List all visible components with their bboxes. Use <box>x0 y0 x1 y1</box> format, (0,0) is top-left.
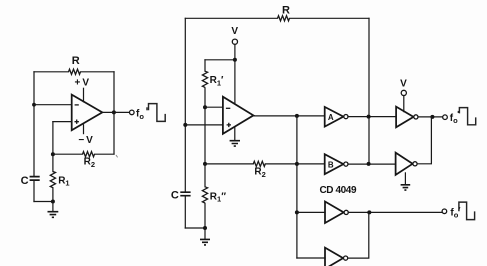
resistor R2 (right circuit) <box>253 161 265 166</box>
resistor R (right circuit) <box>278 16 290 21</box>
node: R1" bottom junction <box>203 226 207 230</box>
terminal V (supply right) <box>401 90 406 95</box>
pin + (U1) <box>75 120 79 124</box>
wire: feedback right vertical <box>368 18 370 164</box>
wire: non-inverting input <box>53 121 72 123</box>
node: inverting input junction <box>32 103 36 107</box>
resistor R (left circuit) <box>69 69 81 74</box>
node: paralleled outputs junction <box>430 115 434 119</box>
wire: mid distribution vertical <box>296 116 298 258</box>
waveform icon (fo') <box>459 202 475 220</box>
wire: U4 output up to fo line <box>417 117 431 164</box>
node: paralleled outputs junction (bottom) <box>367 210 371 214</box>
wire: top feedback left segment <box>185 17 277 19</box>
inverter U3 (top buffer) <box>396 107 413 128</box>
wire: top feedback left segment <box>34 71 69 73</box>
inverter A <box>325 107 344 127</box>
node: + input junction on left rail <box>183 123 187 127</box>
svg-text:fo: fo <box>136 109 144 121</box>
svg-text:B: B <box>328 160 334 169</box>
ground (left circuit) <box>52 202 54 212</box>
svg-text:R1: R1 <box>58 175 69 187</box>
node: feedback tap on A line <box>367 115 371 119</box>
wire: D inverter input <box>297 257 325 259</box>
svg-text:R: R <box>72 55 80 67</box>
op-amp U1 <box>72 95 103 131</box>
wire: R2 left segment <box>205 163 253 165</box>
wire: inverting input <box>34 104 72 106</box>
wire: to R1' top <box>205 59 235 61</box>
pin - (U2) <box>226 107 230 109</box>
inverter U5 (bottom pair top) <box>325 202 344 224</box>
node: bottom junction <box>51 200 55 204</box>
wire: B output <box>348 163 396 165</box>
resistor R1' <box>204 60 206 107</box>
wire: op-amp output to inverter A <box>253 115 324 117</box>
resistor R1" <box>204 164 206 228</box>
node: V / R1' junction <box>233 58 237 62</box>
svg-text:C: C <box>21 175 29 187</box>
terminal fo (left circuit) <box>130 110 135 115</box>
inverter B <box>325 154 344 174</box>
node: output junction <box>112 110 116 114</box>
capacitor C (left circuit) <box>30 177 40 181</box>
wire: below C <box>33 181 35 202</box>
wire: R2 right segment <box>95 153 115 155</box>
wire: R1'/R1" vertical <box>204 107 206 164</box>
node: C inverter input junction <box>295 210 299 214</box>
wire: top feedback right segment <box>81 71 115 73</box>
resistor R2 (left circuit) <box>83 152 95 157</box>
ground (under R1") <box>204 228 206 239</box>
waveform icon (left circuit) <box>146 107 148 110</box>
wire: right vertical (output to R and R2) <box>113 72 115 154</box>
wire: non-inverting input <box>185 124 223 126</box>
op-amp U2 <box>223 97 254 134</box>
node: R2/B junction <box>295 162 299 166</box>
wire: R2 right segment to inverter B <box>265 163 324 165</box>
node: output distribution junction <box>295 114 299 118</box>
terminal fo (right circuit) <box>443 115 448 120</box>
wire: non-inverting vertical <box>52 122 54 155</box>
speck artifact near R2 corner <box>116 155 118 157</box>
wire: output <box>102 111 129 113</box>
inverter U4 (bottom buffer) <box>396 153 413 175</box>
wire: bottom joining C and R1 <box>34 201 53 203</box>
wire: bottom joining C and R1" <box>185 227 205 229</box>
svg-text:R1″: R1″ <box>210 191 226 203</box>
wire: +V supply stub <box>83 88 85 102</box>
wire: top feedback right segment <box>290 17 370 19</box>
ground (under U2) <box>234 127 236 141</box>
svg-text:C: C <box>171 190 179 202</box>
waveform icon (fo right) <box>457 111 459 113</box>
svg-text:R2: R2 <box>84 157 95 169</box>
wire: left vertical lower <box>184 196 186 228</box>
terminal fo' <box>442 209 447 214</box>
terminal V (supply mid) <box>232 39 237 44</box>
pin - (U1) <box>75 104 79 106</box>
wire: U6 output up <box>348 212 369 258</box>
wire: buffer output <box>418 116 443 118</box>
wire: U5 output to terminal <box>348 211 442 213</box>
svg-text:+ V: + V <box>75 78 90 89</box>
pin + (U2) <box>227 123 231 127</box>
svg-text:R1′: R1′ <box>210 75 224 87</box>
wire: inverting input <box>205 106 223 108</box>
inverter U6 (bottom pair bottom) <box>325 248 343 266</box>
wire: left vertical upper <box>184 18 186 192</box>
node: feedback tap on B line <box>367 162 371 166</box>
capacitor C (right circuit) <box>180 192 190 196</box>
svg-text:fo: fo <box>450 113 458 125</box>
svg-text:A: A <box>328 113 334 122</box>
resistor R1 (left circuit) <box>52 154 54 201</box>
svg-text:V: V <box>231 26 238 37</box>
wire: -V supply stub <box>83 125 85 134</box>
svg-text:CD 4049: CD 4049 <box>319 185 357 196</box>
wire: R2 left segment <box>53 153 83 155</box>
wire: V to buffer top <box>403 96 405 112</box>
svg-text:R: R <box>282 5 290 17</box>
svg-text:V: V <box>400 78 407 89</box>
wire: A output <box>348 116 396 118</box>
svg-text:− V: − V <box>78 135 93 146</box>
node: R2 left junction <box>203 162 207 166</box>
wire: left vertical (inverting node down to C) <box>33 72 35 177</box>
node: R1/R2 junction <box>51 152 55 156</box>
wire: V down to op-amp <box>234 44 236 103</box>
svg-text:R2: R2 <box>254 167 265 179</box>
node: inverting input junction <box>203 105 207 109</box>
wire: C inverter input <box>297 211 325 213</box>
ground (under U4) <box>404 173 406 184</box>
